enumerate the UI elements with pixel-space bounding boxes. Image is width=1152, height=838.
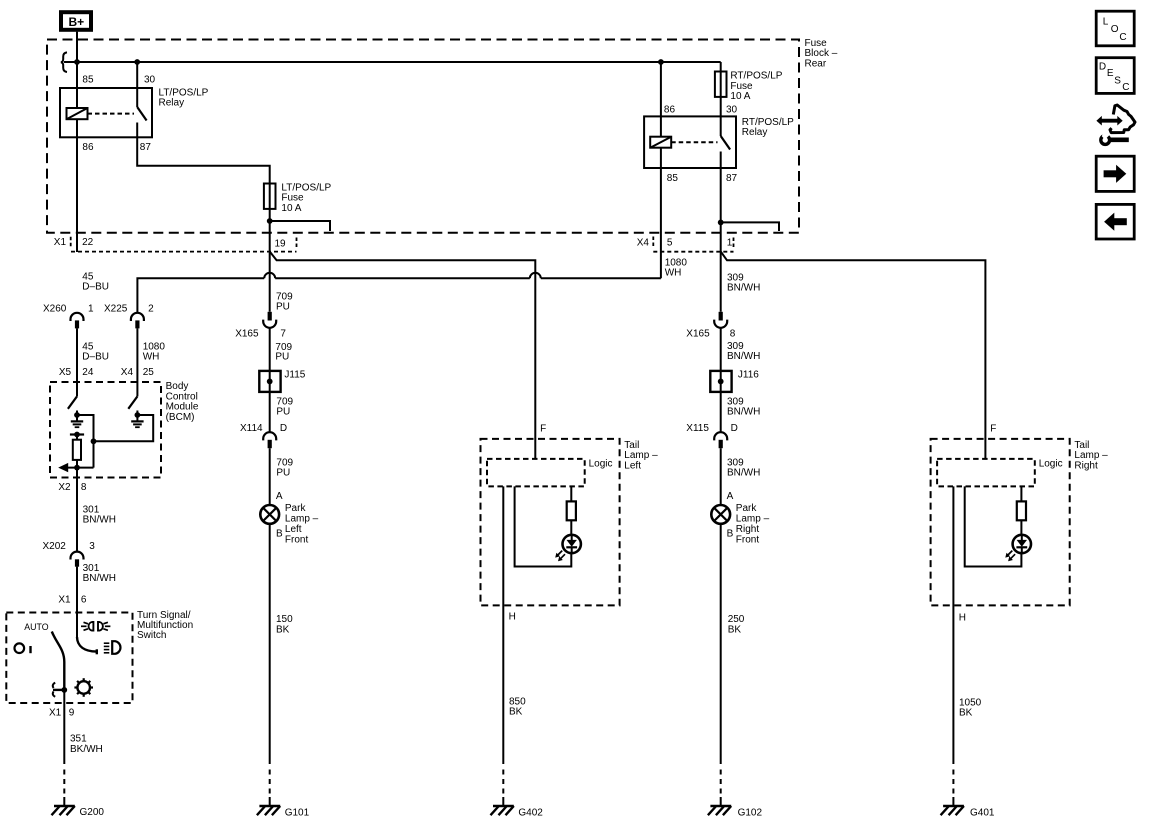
connector X4 strip <box>637 237 734 252</box>
wire X1-19 down (709 PU feed) <box>269 221 271 312</box>
svg-text:2: 2 <box>148 304 154 315</box>
svg-text:X114: X114 <box>240 423 263 434</box>
svg-text:F: F <box>990 424 996 435</box>
svg-text:Logic: Logic <box>1039 459 1063 470</box>
svg-text:Relay: Relay <box>159 98 185 109</box>
wire label 709 PU (third) <box>276 396 293 417</box>
junction RT 87 branch <box>718 220 724 226</box>
svg-text:3: 3 <box>89 541 95 552</box>
wire RT fuse feed from bus <box>720 62 722 72</box>
svg-text:X2: X2 <box>58 482 71 493</box>
headlamp icon <box>104 641 121 654</box>
svg-text:Lamp –: Lamp – <box>285 514 319 525</box>
icon button LOC <box>1096 11 1134 46</box>
wire X165-7 to J115 <box>269 328 271 371</box>
BCM left switch lower stub <box>76 411 78 416</box>
svg-text:X1: X1 <box>58 595 71 606</box>
svg-text:BK: BK <box>959 708 973 719</box>
wire LT relay 87 to LT fuse <box>137 137 270 183</box>
switch Turn Signal/Multifunction enclosure <box>6 613 132 704</box>
connector X165 pin 7 <box>235 312 286 340</box>
rotary lamp icon <box>74 678 93 697</box>
svg-text:85: 85 <box>667 173 679 184</box>
wire break squiggle <box>61 52 67 72</box>
svg-text:D: D <box>731 423 738 434</box>
switch output contact <box>53 683 65 697</box>
ground G401 <box>941 797 995 819</box>
wire label 250 BK <box>728 614 745 635</box>
svg-text:X225: X225 <box>104 304 128 315</box>
junction bus/LT relay 30 <box>134 59 140 65</box>
junction LT fuse output <box>267 218 273 224</box>
svg-text:AUTO: AUTO <box>24 622 48 632</box>
module Tail Lamp - Left enclosure <box>481 439 620 606</box>
label Park Lamp - Left Front <box>285 503 319 545</box>
wire BCM left node to sense line <box>77 415 94 468</box>
junction BCM output node <box>74 465 80 471</box>
svg-text:Park: Park <box>736 503 758 514</box>
park lamps icon <box>81 622 110 631</box>
connector X202 pin 3 <box>43 541 96 567</box>
svg-text:A: A <box>727 491 734 502</box>
svg-text:45: 45 <box>82 271 94 282</box>
svg-text:Switch: Switch <box>137 630 166 641</box>
svg-text:O: O <box>1111 24 1119 35</box>
svg-text:X260: X260 <box>43 304 67 315</box>
svg-text:10 A: 10 A <box>281 203 301 214</box>
ground G101 <box>257 797 310 819</box>
wire label 351 BK/WH <box>70 734 103 755</box>
label Body Control Module (BCM) <box>166 381 199 423</box>
wire logic to H pin (left tail lamp) <box>502 486 504 764</box>
wire label 301 BN/WH (upper) <box>83 505 116 526</box>
label LT/POS/LP Fuse 10 A <box>281 182 331 213</box>
svg-text:X5: X5 <box>59 367 72 378</box>
svg-text:J116: J116 <box>738 370 759 381</box>
svg-text:BK: BK <box>509 707 523 718</box>
svg-text:C: C <box>1122 82 1129 93</box>
wire BCM right node to sense line <box>94 415 154 441</box>
svg-text:Front: Front <box>736 534 760 545</box>
wire label 709 PU (first) <box>276 292 293 313</box>
wire X115 to park lamp A <box>720 448 722 505</box>
wire label 1050 BK <box>959 698 982 719</box>
label Fuse Block - Rear <box>805 38 838 70</box>
svg-text:X115: X115 <box>686 423 709 434</box>
svg-text:WH: WH <box>143 351 160 362</box>
svg-text:5: 5 <box>667 238 673 249</box>
wire switch output to X1-9 <box>63 690 65 764</box>
svg-text:X1: X1 <box>49 708 62 719</box>
svg-text:Rear: Rear <box>805 58 827 69</box>
junction bus/B+ <box>74 59 80 65</box>
svg-text:PU: PU <box>276 406 290 417</box>
fuse block - rear enclosure <box>47 40 799 233</box>
svg-text:86: 86 <box>664 104 676 115</box>
svg-text:B: B <box>276 528 283 539</box>
wire resistor to LED (left tail lamp) <box>570 520 572 534</box>
connector X1 strip <box>54 237 297 252</box>
svg-text:Relay: Relay <box>742 127 768 138</box>
svg-text:BK: BK <box>276 624 290 635</box>
splice J116 <box>710 370 759 392</box>
auto mode contact circle <box>14 643 30 653</box>
wire label 1080 WH (at X4-5) <box>665 257 688 278</box>
svg-text:G401: G401 <box>970 808 995 819</box>
label Park Lamp - Right Front <box>736 503 770 545</box>
svg-text:8: 8 <box>81 482 87 493</box>
connector X115 pin D <box>686 423 738 448</box>
wire BCM output to X2-8 <box>76 468 78 552</box>
label Tail Lamp - Left <box>624 440 658 471</box>
wire J115 to X114 <box>269 392 271 432</box>
wire label 709 PU (fourth) <box>276 458 293 479</box>
icon button next arrow <box>1096 156 1134 191</box>
svg-text:BN/WH: BN/WH <box>83 514 116 525</box>
pin label X1 6 <box>58 595 87 606</box>
svg-text:25: 25 <box>143 367 155 378</box>
svg-text:Left: Left <box>624 460 641 471</box>
svg-text:BN/WH: BN/WH <box>727 468 760 479</box>
wire resistor to LED (right tail lamp) <box>1020 520 1022 534</box>
icon component locator (arrows + part + wrench) <box>1096 105 1135 144</box>
svg-text:X4: X4 <box>637 238 650 249</box>
svg-text:BK: BK <box>728 624 742 635</box>
pin label X1 9 <box>49 708 75 719</box>
connector X165 pin 8 <box>686 312 735 340</box>
wire label 45 D-BU (upper) <box>82 271 109 292</box>
resistor BCM internal <box>73 435 81 468</box>
module Tail Lamp - Right enclosure <box>931 439 1070 606</box>
LT relay coil <box>67 88 88 119</box>
power symbol B+ <box>61 12 91 30</box>
pin label X5 24 <box>59 367 94 378</box>
icon button back arrow <box>1096 204 1134 239</box>
wire logic to H pin (right tail lamp) <box>952 486 954 764</box>
svg-text:Front: Front <box>285 534 309 545</box>
wire label 850 BK <box>509 697 526 718</box>
wire park lamp B to G101 <box>269 524 271 764</box>
LT relay coil-switch dashed link <box>88 113 135 115</box>
wire RT relay 87 down <box>720 168 722 222</box>
connector X260 pin 1 <box>43 304 94 329</box>
svg-text:F: F <box>540 424 546 435</box>
wire X225 to BCM X4-25 <box>136 328 138 396</box>
ground G200 <box>52 797 105 818</box>
wire dashed lead to G200 <box>63 770 65 798</box>
resistor (right tail lamp) <box>1017 501 1026 520</box>
svg-text:Left: Left <box>285 524 302 535</box>
svg-text:A: A <box>276 491 283 502</box>
resistor (left tail lamp) <box>567 501 576 520</box>
svg-text:(BCM): (BCM) <box>166 412 195 423</box>
junction BCM sense line <box>91 438 97 444</box>
wire label 309 BN/WH (fourth) <box>727 458 760 479</box>
svg-text:D: D <box>280 423 287 434</box>
svg-text:BK/WH: BK/WH <box>70 744 103 755</box>
wire X4-1 down (309 BN/WH feed) <box>720 222 722 311</box>
svg-text:BN/WH: BN/WH <box>727 351 760 362</box>
svg-text:BN/WH: BN/WH <box>727 283 760 294</box>
wire bus to RT relay 86 <box>660 62 662 116</box>
wire bus to LT relay pin 30 <box>136 62 138 88</box>
junction bus/RT relay 86 <box>658 59 664 65</box>
svg-text:Right: Right <box>736 524 760 535</box>
svg-text:LT/POS/LP: LT/POS/LP <box>159 87 209 98</box>
icon button DESC <box>1096 58 1134 94</box>
svg-text:6: 6 <box>81 595 87 606</box>
svg-text:BN/WH: BN/WH <box>727 406 760 417</box>
LED (right tail lamp) <box>1005 535 1031 561</box>
wire 1080 WH run X4-5 to X225-2 with hops <box>137 273 661 313</box>
connector X225 pin 2 <box>104 304 154 329</box>
wire logic loop (left tail lamp) <box>515 486 572 566</box>
wire X165-8 to J116 <box>720 328 722 371</box>
wire RT fuse to relay 30 <box>720 97 722 117</box>
svg-text:D–BU: D–BU <box>82 351 109 362</box>
svg-text:PU: PU <box>276 468 290 479</box>
svg-text:Lamp –: Lamp – <box>736 514 770 525</box>
junction BCM left node <box>74 412 80 418</box>
junction BCM right node <box>135 412 141 418</box>
wire label 1080 WH (at X225) <box>143 342 166 363</box>
arrow BCM output <box>58 463 93 472</box>
svg-text:BN/WH: BN/WH <box>83 573 116 584</box>
wire resistor feed (left tail lamp) <box>570 486 572 501</box>
svg-text:22: 22 <box>82 237 94 248</box>
svg-text:S: S <box>1114 75 1121 86</box>
svg-text:G102: G102 <box>738 808 763 819</box>
relay LT/POS/LP Relay box <box>60 88 152 137</box>
logic block (left tail lamp) <box>487 459 585 487</box>
svg-text:1: 1 <box>727 238 733 249</box>
logic block (right tail lamp) <box>937 459 1035 487</box>
ground symbol BCM left <box>71 415 83 427</box>
wire dashed lead to G401 <box>952 770 954 798</box>
wire RT relay 85 down to X4-5 <box>660 148 662 279</box>
wire label 150 BK <box>276 614 293 635</box>
wire label 709 PU (second) <box>275 342 292 363</box>
label RT/POS/LP Relay <box>742 117 794 138</box>
svg-text:Park: Park <box>285 503 307 514</box>
ground symbol BCM right <box>131 415 143 427</box>
relay RT/POS/LP Relay box <box>644 116 736 168</box>
svg-text:85: 85 <box>82 74 94 85</box>
svg-text:1: 1 <box>88 304 94 315</box>
switch blade (head lamp position) <box>77 637 97 654</box>
wire dashed lead to G102 <box>720 770 722 798</box>
svg-text:30: 30 <box>144 74 156 85</box>
wire dashed lead to G101 <box>269 770 271 798</box>
wire label 301 BN/WH (lower) <box>83 563 116 584</box>
module BCM enclosure <box>50 382 161 478</box>
wire B+ feed to bus <box>76 32 78 62</box>
svg-text:X202: X202 <box>43 541 67 552</box>
fuse LT/POS/LP Fuse 10A <box>264 184 276 209</box>
svg-text:C: C <box>1119 32 1126 43</box>
wire stub to fuse block edge (right) <box>721 222 779 231</box>
wire label 309 BN/WH (third) <box>727 396 760 417</box>
svg-text:X4: X4 <box>121 367 134 378</box>
splice J115 <box>259 370 305 392</box>
BCM right switch <box>128 396 137 408</box>
svg-text:PU: PU <box>276 302 290 313</box>
junction switch output <box>61 687 67 693</box>
svg-text:WH: WH <box>665 268 682 279</box>
svg-text:10 A: 10 A <box>730 91 750 102</box>
wire park lamp B to G102 <box>720 524 722 764</box>
svg-text:B+: B+ <box>69 15 85 29</box>
svg-text:G200: G200 <box>80 807 105 818</box>
svg-text:Right: Right <box>1074 460 1098 471</box>
svg-text:H: H <box>959 613 966 624</box>
RT relay coil-switch dashed link <box>671 141 717 143</box>
svg-text:7: 7 <box>280 328 286 339</box>
svg-text:19: 19 <box>275 239 287 250</box>
wire branch to tail lamp left F <box>270 252 536 459</box>
wire label 309 BN/WH (second) <box>727 341 760 362</box>
svg-text:D–BU: D–BU <box>82 282 109 293</box>
wire dashed lead to G402 <box>502 770 504 798</box>
wire bus to LT relay pin 85 <box>76 62 78 88</box>
BCM right switch lower stub <box>136 411 138 416</box>
svg-text:H: H <box>509 612 516 623</box>
label RT/POS/LP Fuse 10 A <box>730 71 782 102</box>
svg-text:86: 86 <box>82 142 94 153</box>
label Turn Signal/Multifunction Switch <box>137 610 193 641</box>
svg-text:87: 87 <box>140 142 152 153</box>
svg-text:J115: J115 <box>284 370 305 381</box>
switch lever (auto position) <box>52 632 65 690</box>
LT relay switch <box>137 88 146 137</box>
wire main B+ bus <box>64 61 721 63</box>
BCM left switch <box>68 396 77 408</box>
fuse RT/POS/LP Fuse 10A <box>715 72 727 97</box>
pin label X2 8 <box>58 482 87 493</box>
label LT/POS/LP Relay <box>159 87 209 108</box>
svg-text:Logic: Logic <box>589 459 613 470</box>
ground G102 <box>708 797 763 819</box>
wire label 45 D-BU (lower) <box>82 342 109 363</box>
ground G402 <box>491 797 544 819</box>
LED (left tail lamp) <box>555 535 581 561</box>
svg-text:PU: PU <box>275 352 289 363</box>
svg-text:L: L <box>1103 16 1109 27</box>
wire X260 to BCM X5-24 <box>76 328 78 396</box>
connector X114 pin D <box>240 423 287 448</box>
svg-text:24: 24 <box>82 367 94 378</box>
wire LT fuse output <box>269 209 271 221</box>
wire stub to fuse block edge (left) <box>270 221 330 231</box>
lamp Park Lamp - Right Front <box>711 505 730 524</box>
svg-text:E: E <box>1107 68 1114 79</box>
svg-text:G101: G101 <box>285 808 310 819</box>
wire LT relay 86 down to X1-22 <box>76 119 78 252</box>
svg-text:B: B <box>727 528 734 539</box>
BCM internal supply bar node <box>70 432 84 438</box>
svg-text:30: 30 <box>726 104 738 115</box>
svg-text:87: 87 <box>726 173 738 184</box>
svg-text:D: D <box>1099 62 1106 73</box>
RT relay switch <box>721 116 730 168</box>
pin label X4 25 <box>121 367 154 378</box>
wire X202 to switch X1-6 <box>76 567 78 637</box>
wire branch to tail lamp right F <box>721 252 986 459</box>
label Tail Lamp - Right <box>1074 440 1108 471</box>
wire logic loop (right tail lamp) <box>965 486 1022 566</box>
svg-text:X165: X165 <box>235 328 259 339</box>
wire label 309 BN/WH (first) <box>727 273 760 294</box>
lamp Park Lamp - Left Front <box>260 505 279 524</box>
svg-text:9: 9 <box>69 708 75 719</box>
svg-text:351: 351 <box>70 734 87 745</box>
svg-text:X165: X165 <box>686 328 710 339</box>
wire X114 to park lamp A <box>269 448 271 505</box>
svg-text:G402: G402 <box>518 808 543 819</box>
wire resistor feed (right tail lamp) <box>1020 486 1022 501</box>
RT relay coil <box>650 116 671 147</box>
svg-text:X1: X1 <box>54 237 67 248</box>
svg-text:8: 8 <box>730 328 736 339</box>
wire J116 to X115 <box>720 392 722 432</box>
